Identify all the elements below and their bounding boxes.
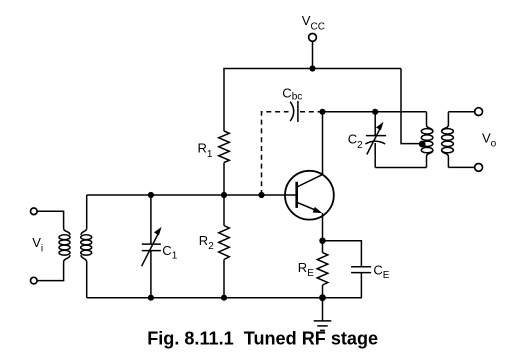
capacitor C2 straight plate bbox=[366, 135, 386, 137]
svg-text:Fig. 8.11.1 Tuned RF stage: Fig. 8.11.1 Tuned RF stage bbox=[147, 329, 378, 349]
capacitor C1 plates bbox=[142, 243, 161, 245]
node transformer tap dot bbox=[419, 141, 426, 148]
transformer T1 primary winding bbox=[64, 228, 70, 235]
terminal Vo bottom bbox=[475, 164, 483, 172]
node C1 bottom dot bbox=[148, 295, 154, 301]
ground symbol bbox=[322, 298, 324, 321]
wire R2 to bottom rail bbox=[223, 260, 225, 298]
wire base rail bbox=[87, 194, 296, 196]
wire Vi bottom lead bbox=[37, 262, 64, 281]
resistor R2 bbox=[223, 195, 225, 226]
wire R1 to base rail bbox=[223, 163, 225, 196]
transistor Q1 circle bbox=[285, 171, 334, 220]
transformer T2 primary winding bbox=[426, 112, 428, 125]
node R2 bottom dot bbox=[221, 295, 227, 301]
wire tank bottom rail bbox=[375, 167, 426, 169]
capacitor CE branch top wire bbox=[323, 241, 362, 267]
capacitor Cbc straight plate bbox=[297, 101, 299, 122]
node dashed feedback junction dot bbox=[258, 192, 264, 198]
wire VCC right drop to transformer tap bbox=[401, 69, 420, 144]
node ground junction dot bbox=[319, 294, 326, 301]
wire Vi top lead bbox=[37, 211, 64, 228]
wire Vo top lead bbox=[448, 111, 474, 113]
wire VCC terminal to top rail bbox=[312, 41, 314, 69]
terminal Vi top bbox=[31, 208, 38, 215]
node base junction dot bbox=[221, 192, 227, 198]
capacitor CE bottom return wire bbox=[323, 273, 362, 298]
capacitor Cbc curved plate bbox=[290, 102, 294, 121]
terminal Vi bottom bbox=[31, 277, 38, 284]
capacitor C2 top lead bbox=[372, 109, 378, 115]
resistor RE bbox=[322, 241, 324, 253]
wire collector rail bbox=[323, 111, 427, 113]
transformer T1 secondary winding bbox=[86, 195, 88, 228]
node collector junction dot bbox=[319, 109, 325, 115]
wire bottom rail bbox=[87, 297, 323, 299]
wire collector vertical bbox=[322, 112, 324, 175]
terminal Vo top bbox=[475, 108, 483, 116]
wire emitter vertical bbox=[322, 213, 324, 241]
transistor Q1 emitter stroke with arrow bbox=[298, 203, 317, 211]
capacitor C1 bottom lead bbox=[150, 251, 152, 298]
wire Vo bottom lead bbox=[448, 166, 474, 168]
transistor Q1 collector stroke bbox=[298, 175, 323, 187]
capacitor C2 curved plate bbox=[365, 141, 385, 144]
wire top rail bbox=[224, 69, 401, 132]
capacitor Cbc dashed feedback path bbox=[262, 112, 323, 195]
node emitter junction dot bbox=[319, 238, 325, 244]
capacitor C1 arrow bbox=[142, 234, 159, 267]
wire RE to ground node bbox=[322, 285, 324, 298]
transistor Q1 base bar bbox=[295, 182, 298, 208]
node VCC junction bbox=[309, 65, 315, 71]
resistor R1 bbox=[219, 131, 230, 163]
capacitor CE plates bbox=[351, 266, 371, 268]
transformer T2 secondary winding bbox=[447, 112, 449, 125]
power terminal VCC bbox=[309, 34, 317, 42]
capacitor C2 arrow bbox=[367, 128, 380, 154]
node C1 top junction dot bbox=[148, 192, 154, 198]
capacitor C2 bottom lead bbox=[374, 143, 376, 168]
capacitor C1 top lead bbox=[150, 195, 152, 244]
